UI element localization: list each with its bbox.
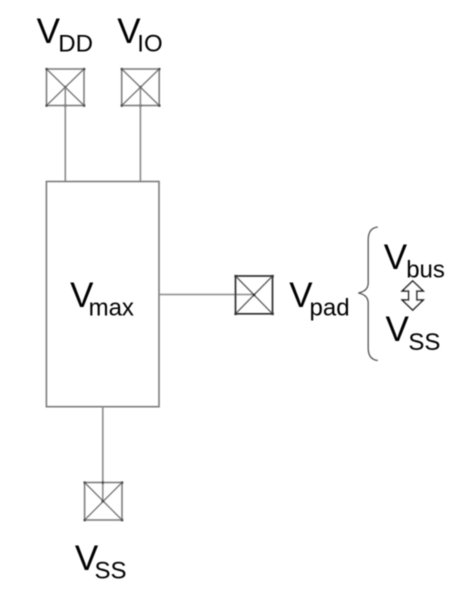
label VSS right xyxy=(386,310,441,356)
Vmax block xyxy=(46,182,159,407)
label VSS bottom xyxy=(75,539,127,585)
brace xyxy=(358,227,378,361)
label Vbus xyxy=(384,238,445,284)
pad symbol VIO xyxy=(121,68,161,107)
svg-text:V: V xyxy=(37,12,61,51)
pad symbol Vpad xyxy=(234,275,273,315)
label Vpad xyxy=(289,276,349,322)
wire VDD pad to Vmax block xyxy=(64,87,66,181)
svg-text:max: max xyxy=(89,295,134,322)
svg-text:pad: pad xyxy=(310,295,350,322)
svg-text:IO: IO xyxy=(137,31,162,58)
wire Vmax block to Vpad pad xyxy=(159,294,254,296)
label VDD xyxy=(37,12,93,58)
label VIO xyxy=(117,12,162,58)
svg-text:V: V xyxy=(386,310,410,349)
svg-text:V: V xyxy=(384,238,408,277)
svg-text:DD: DD xyxy=(58,31,93,58)
wire VIO pad to Vmax block xyxy=(139,87,141,181)
svg-text:bus: bus xyxy=(406,257,445,284)
pad symbol VDD xyxy=(45,68,85,107)
svg-text:SS: SS xyxy=(408,329,440,356)
wire Vmax block to VSS pad xyxy=(102,407,104,502)
svg-text:SS: SS xyxy=(95,558,127,585)
pad symbol VSS xyxy=(84,481,124,521)
bidirectional arrow Vbus/VSS xyxy=(402,281,423,310)
label Vmax xyxy=(70,276,134,322)
